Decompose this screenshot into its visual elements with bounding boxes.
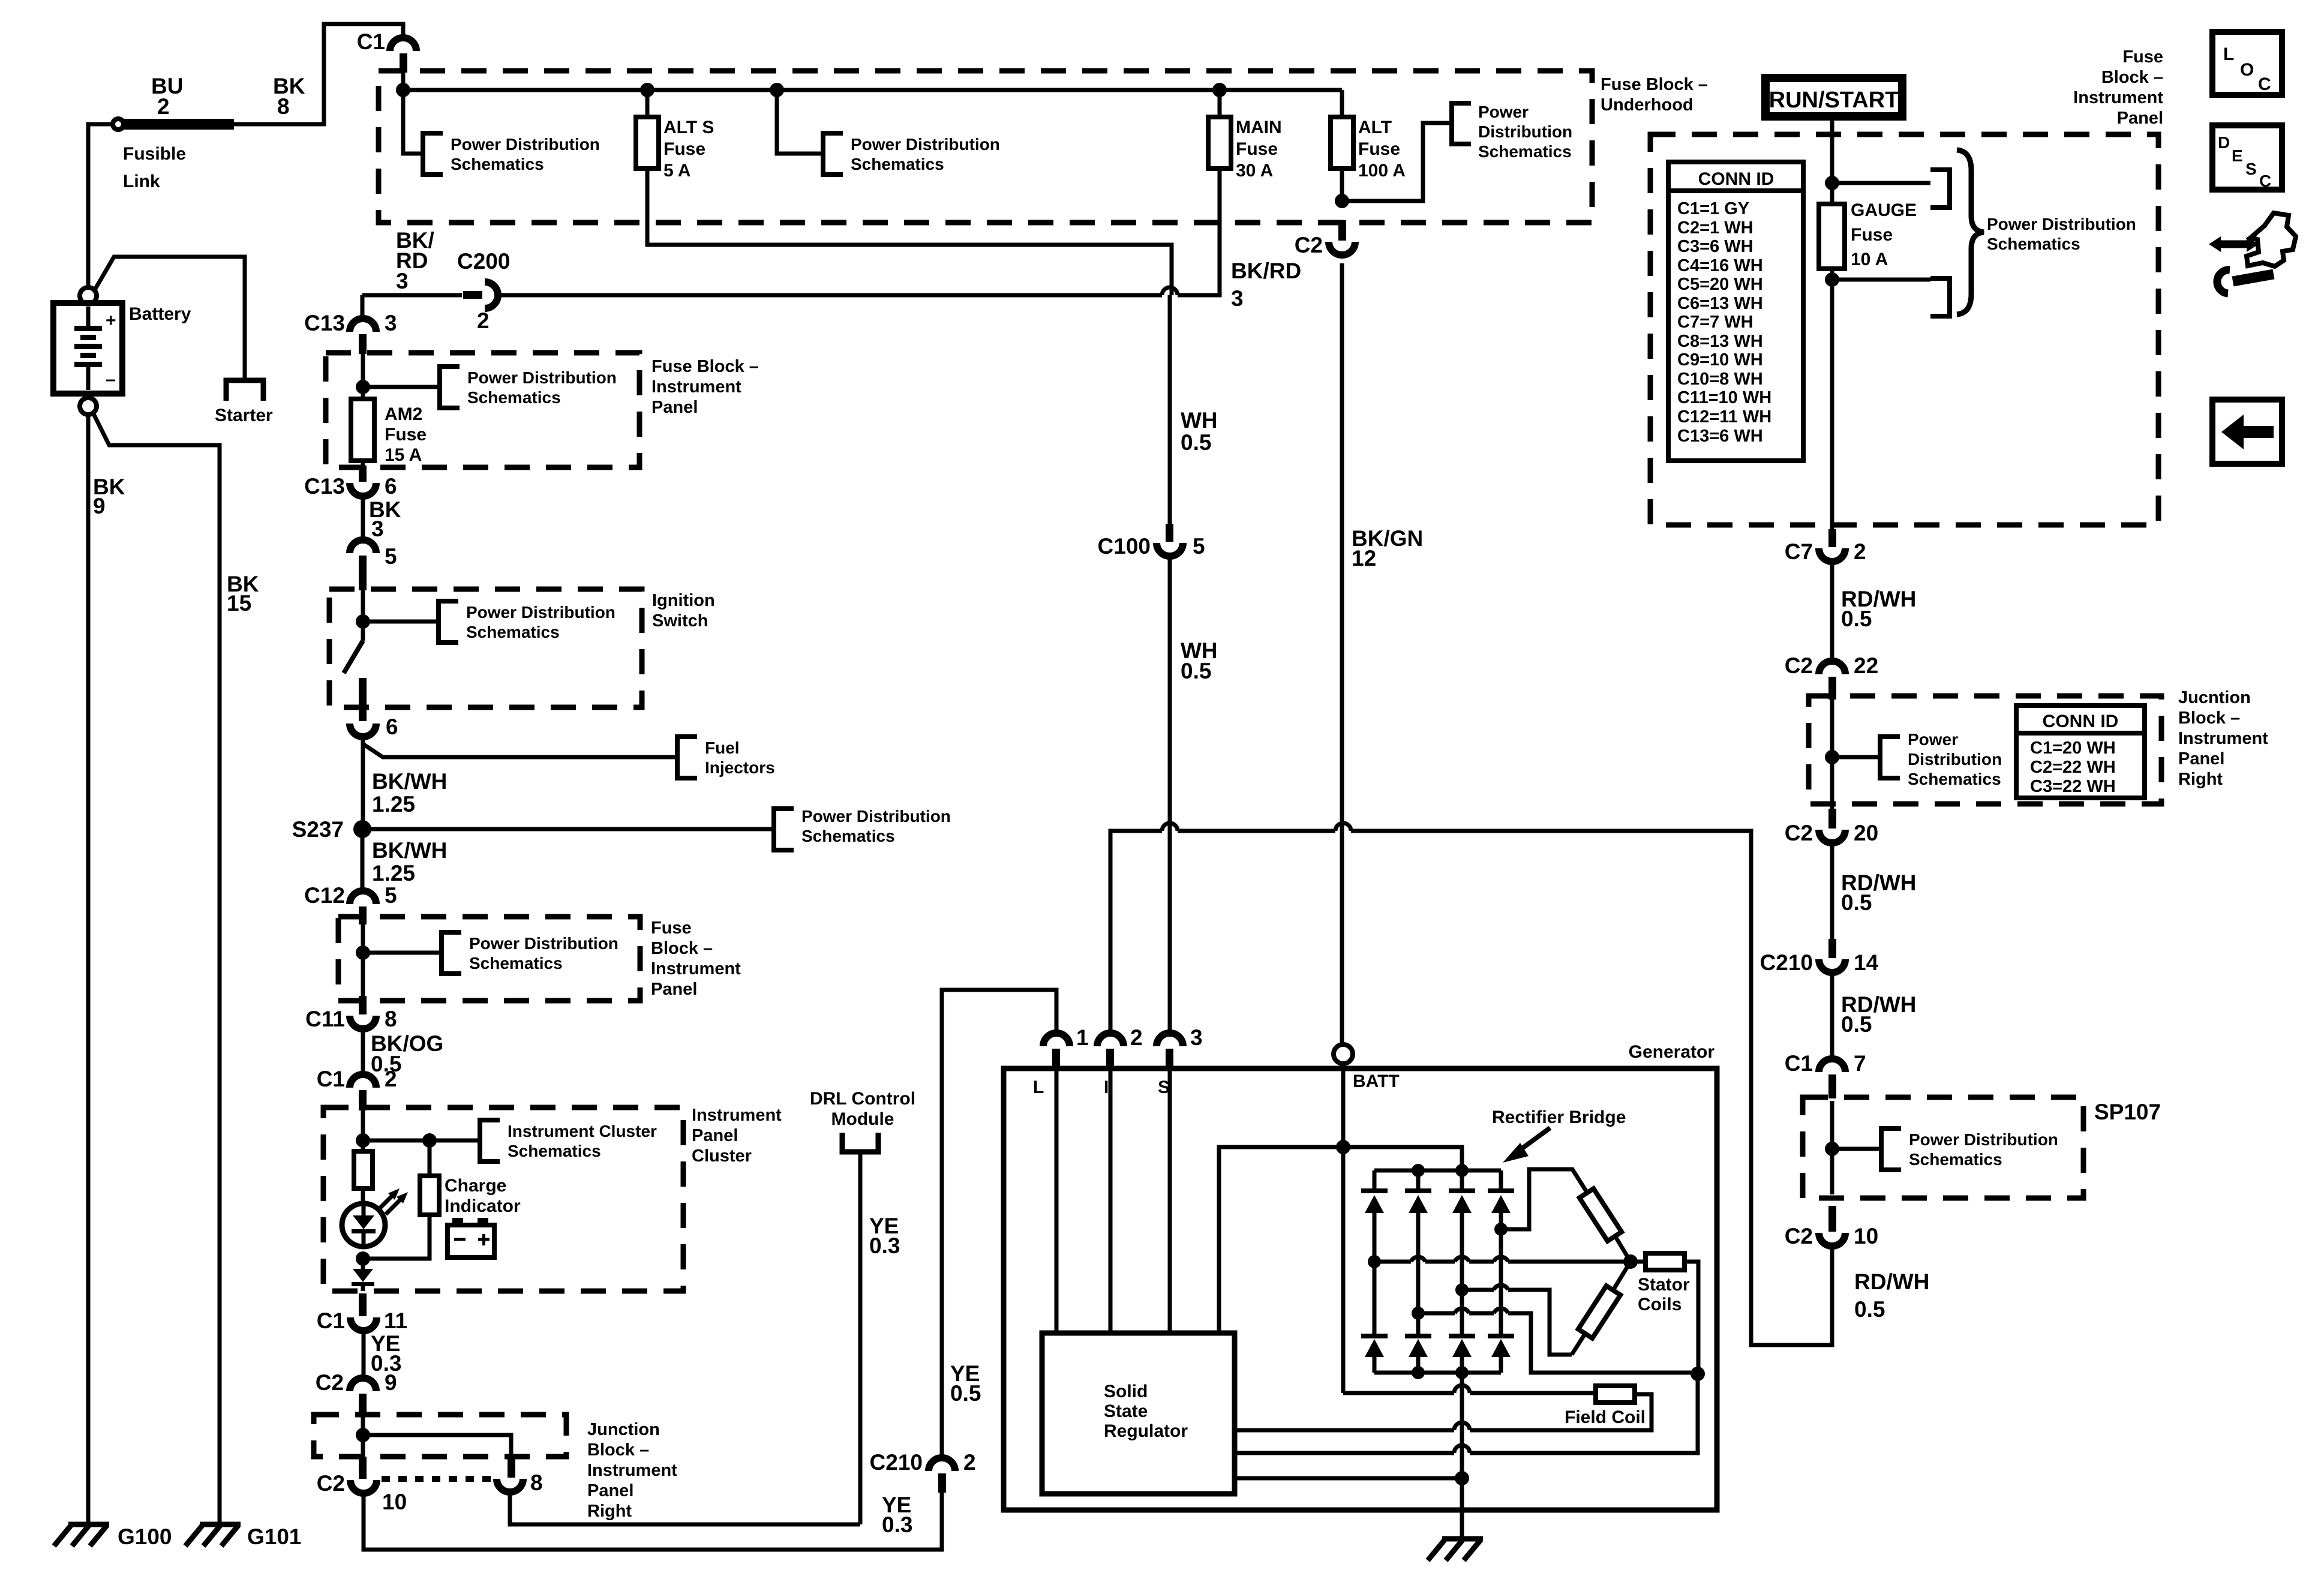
wire inside junction block left [361,1416,365,1457]
svg-text:12: 12 [1352,546,1376,571]
diode upper 4 [1488,1170,1514,1334]
node top rail col2 [1412,1164,1425,1177]
connector C200 pin 2 [457,249,510,333]
hops phase1 [1411,1257,1508,1262]
wire field coil top line1 [1343,1391,1596,1395]
svg-text:Right: Right [2178,770,2223,789]
stator coil top resistor [1580,1188,1622,1241]
label junction block IP right [2178,688,2268,789]
hop line3 over col3 [1454,1445,1470,1453]
svg-text:S: S [1158,1077,1170,1097]
node stator common [1691,1367,1705,1381]
fuse MAIN 30A [1208,90,1282,181]
svg-text:Distribution: Distribution [1908,750,2002,769]
node stator center [1623,1254,1638,1269]
bracket power distribution ref S237 [774,807,951,850]
fuse block IP AM2 dashed box [326,353,639,467]
svg-text:Junction: Junction [587,1420,660,1439]
svg-text:Schematics: Schematics [451,155,544,173]
svg-text:C1: C1 [317,1067,345,1091]
node top rail col3 [1455,1164,1469,1177]
svg-text:5 A: 5 A [663,161,691,181]
diode lower 1 [1361,1262,1388,1373]
node ignition-ref [356,614,370,629]
wire to instrument cluster ref [363,1139,479,1143]
phase rail 3 [1418,1313,1691,1373]
svg-text:I: I [1104,1077,1109,1097]
svg-text:Instrument: Instrument [692,1106,782,1125]
DRL control module [810,1089,915,1152]
switch output stub [359,678,367,721]
connector C210 pin 14 [1760,939,1879,975]
svg-text:0.5: 0.5 [1841,607,1872,631]
svg-text:Distribution: Distribution [1478,122,1572,141]
node bottom rail col2 [1412,1366,1425,1379]
label ignition switch [652,591,715,631]
svg-text:ALT: ALT [1358,118,1392,137]
svg-text:Power Distribution: Power Distribution [1987,215,2136,233]
svg-text:C2: C2 [1785,821,1813,845]
svg-text:Power Distribution: Power Distribution [466,603,615,622]
svg-text:Schematics: Schematics [801,827,895,845]
connector C2 pin 10 left [317,1457,407,1514]
svg-text:RUN/START: RUN/START [1769,88,1899,113]
svg-text:10: 10 [382,1490,407,1514]
svg-text:8: 8 [385,1007,397,1031]
svg-text:C12=11 WH: C12=11 WH [1677,407,1771,427]
svg-text:C200: C200 [457,249,510,274]
wire to schematic ref 2 [777,90,822,154]
wire RD/WH 0.5 c7 [1832,563,1916,661]
svg-text:RD/WH: RD/WH [1854,1269,1929,1294]
connector C1 (top) [357,29,416,73]
svg-text:C1: C1 [317,1308,345,1333]
hops phase3 [1455,1308,1508,1313]
diode upper 3 [1449,1170,1475,1290]
svg-text:Panel: Panel [2117,109,2163,128]
svg-text:Instrument: Instrument [651,959,741,978]
junction block IP right dashed box [1809,696,2161,804]
svg-text:C7: C7 [1785,539,1813,564]
svg-text:8: 8 [530,1470,543,1495]
hop line1 over col3 [1454,1385,1470,1393]
svg-text:G100: G100 [118,1524,172,1549]
svg-text:WH: WH [1181,408,1218,433]
label BK/RD 3 right [1231,259,1301,311]
wire DRL module down YE 0.3 [860,1152,900,1524]
svg-text:6: 6 [385,474,397,499]
connector pin 5 ignition [350,540,397,590]
svg-text:Link: Link [123,172,160,191]
svg-text:22: 22 [1854,653,1878,678]
svg-text:C10=8 WH: C10=8 WH [1677,370,1763,389]
svg-text:9: 9 [93,494,106,518]
svg-text:C2: C2 [1785,653,1813,678]
bracket power distribution ref 1 [423,133,600,175]
svg-text:Panel: Panel [692,1126,738,1145]
svg-text:Schematics: Schematics [1909,1150,2002,1169]
svg-text:Power Distribution: Power Distribution [1909,1130,2058,1149]
svg-text:2: 2 [157,94,170,119]
stator coil right resistor [1646,1253,1685,1270]
svg-text:GAUGE: GAUGE [1851,200,1917,220]
ground G101 [185,1524,302,1549]
LED charge lamp [342,1203,385,1247]
wire to schematic ref 1 [403,90,422,154]
svg-text:C13: C13 [304,311,345,335]
fuse block underhood dashed box [379,71,1592,223]
wire L inside generator [1033,1069,1056,1333]
node bus-MAIN [1212,83,1227,97]
node phase3 col2 [1412,1307,1425,1320]
svg-text:–: – [106,370,116,389]
fuse block IP 2 dashed box [338,917,640,1001]
svg-text:Panel: Panel [651,398,698,417]
ignition switch dashed box [329,589,642,707]
svg-text:Fusible: Fusible [123,144,186,164]
CONN ID table underhood [1668,162,1803,461]
svg-text:C6=13 WH: C6=13 WH [1677,294,1763,313]
svg-text:Block –: Block – [651,939,713,958]
svg-text:C9=10 WH: C9=10 WH [1677,350,1763,370]
svg-text:Instrument: Instrument [2178,729,2268,748]
connector C12 pin 5 [304,883,397,924]
svg-text:Instrument: Instrument [651,377,741,397]
svg-text:15 A: 15 A [385,445,422,465]
diode upper 1 [1361,1170,1388,1262]
svg-text:+: + [106,311,116,331]
svg-text:Ignition: Ignition [652,591,715,610]
svg-text:D: D [2218,133,2230,152]
wire to schematic ref 3 [1342,123,1451,201]
connector C1 pin 2 [317,1067,397,1110]
connector pin 2 I [1097,1025,1143,1069]
hop phase2 col4 [1494,1285,1508,1290]
wire inside fuse block IP 2 [361,924,365,997]
svg-text:Battery: Battery [129,304,191,324]
wire inside SP107 [1830,1101,1834,1194]
stator branch lower [1572,1262,1631,1355]
svg-text:G101: G101 [247,1524,302,1549]
svg-text:E: E [2232,146,2243,165]
svg-text:7: 7 [1854,1051,1866,1076]
diode lower 4 [1488,1334,1514,1373]
svg-text:Schematics: Schematics [1908,770,2001,788]
node SP107 [1825,1142,1839,1156]
svg-text:Instrument: Instrument [587,1461,677,1480]
svg-text:Stator: Stator [1638,1275,1690,1295]
svg-text:CONN ID: CONN ID [2043,712,2119,731]
svg-text:Block –: Block – [2101,68,2163,87]
solid state regulator [1042,1333,1235,1494]
bracket instrument cluster schematics [480,1120,657,1161]
wire battery+ to fusible link [88,124,113,288]
node col4 stator tap [1494,1223,1508,1236]
svg-text:Schematics: Schematics [1478,142,1572,161]
svg-text:C5=20 WH: C5=20 WH [1677,275,1763,294]
RUN/START box [1765,78,1902,116]
connector C100 pin 5 [1098,524,1205,559]
hop BK/RD over WH [1162,287,1178,295]
svg-text:ALT S: ALT S [663,118,714,137]
icon LOC box [2212,32,2282,95]
svg-text:2: 2 [1854,539,1866,564]
wire BK 9 battery- to G100 [88,415,125,1524]
svg-text:C2: C2 [316,1370,344,1395]
bracket power distribution ref 2 [823,133,1000,175]
splice S237 [292,817,371,842]
phase rail 2 [1462,1290,1572,1355]
svg-text:Fuse: Fuse [1851,225,1893,245]
svg-text:Schematics: Schematics [469,954,563,972]
svg-text:3: 3 [1190,1025,1203,1050]
svg-text:14: 14 [1854,950,1879,975]
bracket power distribution junction right [1880,730,2002,788]
svg-text:Fuse Block –: Fuse Block – [1601,75,1708,94]
svg-text:0.5: 0.5 [1854,1297,1885,1322]
wire BK/WH 1.25 lower [362,837,447,891]
wire resistor to LED [361,1188,365,1204]
svg-text:C1: C1 [357,29,385,54]
svg-text:C: C [2259,172,2271,190]
connector C2 pin 20 [1785,809,1878,845]
svg-text:Fuse: Fuse [1236,139,1278,159]
battery icon charge indicator [448,1218,494,1257]
node gauge top [1825,176,1839,190]
svg-text:C4=16 WH: C4=16 WH [1677,256,1763,275]
wire ALT-S fuse output to WH line [647,169,1172,295]
bracket gauge bottom ref [1930,278,1950,316]
svg-text:Instrument Cluster: Instrument Cluster [508,1122,657,1140]
wire BATT to rectifier top [1343,1147,1462,1170]
svg-text:Right: Right [587,1502,632,1521]
connector C11 pin 8 [305,996,397,1031]
wire BATT rail down [1341,1147,1346,1393]
connector C2 below ALT fuse [1295,220,1355,257]
node bus-ALTS [640,83,654,97]
svg-text:Underhood: Underhood [1601,95,1694,115]
svg-text:C210: C210 [870,1450,923,1475]
wire fusible link to C1 [234,24,403,124]
wire gauge bottom ref [1832,278,1930,282]
fuse AM2 15A [351,399,427,467]
svg-text:Panel: Panel [587,1481,633,1500]
wire BK/GN 12 [1342,263,1423,1044]
wire S inside generator [1158,1069,1170,1333]
label YE 0.3 bottom [882,1493,912,1537]
connector C13 pin 6 [304,466,397,499]
wire BATT into generator [1341,1064,1346,1147]
svg-text:C11: C11 [305,1007,345,1031]
fuse GAUGE 10A [1819,200,1917,269]
svg-text:2: 2 [477,308,490,333]
connector C7 pin 2 [1785,529,1866,564]
stator branch top [1501,1169,1631,1262]
svg-text:Schematics: Schematics [466,623,560,641]
svg-text:C13: C13 [304,474,345,499]
wire into cluster [361,1110,365,1151]
node junction block left [356,1428,370,1442]
icon arrow wrench [2209,213,2296,293]
svg-text:C2=22 WH: C2=22 WH [2030,758,2116,777]
node junction block right [1825,750,1839,764]
svg-text:C2: C2 [1295,233,1323,257]
switch blade [344,641,363,673]
node phase2 col3 [1455,1283,1469,1296]
connector C1 pin 7 [1785,1051,1866,1098]
svg-text:1.25: 1.25 [372,792,415,816]
wire WH 0.5 lower to S [1170,557,1218,1033]
resistor cluster lamp [354,1151,373,1188]
svg-text:C2=1 WH: C2=1 WH [1677,218,1753,238]
svg-text:C1: C1 [1785,1051,1813,1076]
svg-text:Power Distribution: Power Distribution [451,135,600,154]
svg-text:BK/WH: BK/WH [372,769,447,794]
svg-text:C100: C100 [1098,534,1151,559]
svg-text:8: 8 [277,94,290,119]
node cluster-ref [356,1133,370,1148]
svg-text:Solid: Solid [1104,1382,1148,1401]
fusible link [113,74,234,191]
svg-text:Panel: Panel [2178,749,2224,769]
wire stator sense line3 [1235,1374,1698,1453]
bracket power distribution ref FBIP2 [442,932,618,974]
node phase1 col1 [1368,1255,1381,1268]
wire to schematic ref FBIP2 [363,951,441,955]
svg-text:C2: C2 [317,1471,345,1496]
svg-text:CONN ID: CONN ID [1698,169,1774,189]
svg-text:Block –: Block – [587,1440,649,1460]
svg-text:BK/RD: BK/RD [1231,259,1301,283]
svg-text:Block –: Block – [2178,709,2240,728]
svg-text:Fuse: Fuse [663,139,705,159]
wire charge indicator branch [363,1140,430,1259]
svg-text:2: 2 [963,1450,976,1475]
wire RUN/START down [1830,116,1834,204]
svg-text:1: 1 [1076,1025,1089,1050]
connector pin 6 below ignition [350,715,398,739]
bus wire inside underhood box [403,72,1342,90]
svg-text:30 A: 30 A [1236,161,1273,181]
node AM2-ref [356,380,370,394]
svg-text:Schematics: Schematics [508,1142,601,1160]
wire RD/WH 0.5 c2-20 [1832,844,1916,957]
wire to schematic ref AM2 [363,385,439,389]
wire inside ignition switch [361,590,365,641]
connector pin 8 [497,1458,543,1495]
wire BATT to regulator rail [1219,1147,1343,1333]
svg-text:DRL Control: DRL Control [810,1089,915,1109]
svg-text:0.3: 0.3 [882,1512,912,1537]
svg-text:Injectors: Injectors [705,758,775,777]
svg-text:Schematics: Schematics [851,155,944,173]
svg-text:Regulator: Regulator [1104,1421,1188,1441]
junction block IP left dashed box [314,1415,566,1457]
svg-text:C12: C12 [304,883,345,908]
bracket power distribution ref AM2 [440,367,617,408]
svg-text:10 A: 10 A [1851,250,1888,269]
label fuse block IP right [2073,47,2163,128]
svg-text:10: 10 [1854,1224,1878,1248]
CONN ID table junction block [2016,706,2145,798]
svg-text:Generator: Generator [1629,1042,1715,1062]
svg-text:C3=6 WH: C3=6 WH [1677,237,1753,256]
wire to fuel injectors [363,744,675,757]
svg-text:S: S [2245,160,2257,178]
svg-text:Fuel: Fuel [705,739,740,757]
node line4 col3 [1455,1471,1469,1485]
wire gauge bottom [1830,269,1834,532]
svg-text:6: 6 [386,715,398,739]
svg-text:Power Distribution: Power Distribution [469,934,618,953]
label fuse block underhood [1601,75,1708,115]
wire BK/WH 1.25 upper [363,738,447,821]
svg-text:5: 5 [385,544,397,569]
svg-text:0.5: 0.5 [1181,430,1211,455]
instrument panel cluster dashed box [323,1107,683,1291]
hop line2 over col3 [1454,1422,1470,1430]
node LED bottom [356,1251,370,1266]
wire I inside generator [1104,1069,1110,1333]
dotted wire C2-10 to pin 8 [382,1476,492,1482]
label fuse block IP AM2 [651,357,759,417]
svg-text:L: L [1033,1077,1044,1097]
svg-text:Fuse Block –: Fuse Block – [651,357,759,376]
connector C2 pin 10 right [1785,1206,1878,1248]
svg-text:Power Distribution: Power Distribution [467,368,617,387]
wire BK 15 battery- to G101 [93,413,259,1524]
label rectifier bridge [1492,1107,1626,1163]
fuse ALT 100A [1331,90,1406,181]
svg-text:2: 2 [1130,1025,1143,1050]
svg-text:5: 5 [385,883,397,908]
svg-text:Fuse: Fuse [651,918,692,938]
svg-text:1.25: 1.25 [372,861,415,885]
svg-text:MAIN: MAIN [1236,118,1282,137]
svg-text:Panel: Panel [651,980,697,999]
rectifier top rail [1374,1169,1501,1173]
svg-text:O: O [2240,60,2254,80]
resistor charge indicator [420,1176,521,1216]
svg-text:Power Distribution: Power Distribution [851,135,1000,154]
svg-text:S237: S237 [292,817,344,842]
wire regulator ground line4 [1235,1476,1462,1481]
rectifier bottom rail [1374,1371,1501,1375]
wire pin 8 to DRL node [510,1493,860,1524]
node bus-ref2 [770,83,784,97]
svg-text:C13=6 WH: C13=6 WH [1677,427,1763,446]
wire to ref junction block right [1832,755,1879,760]
label instrument panel cluster [692,1106,782,1166]
svg-text:15: 15 [227,591,251,616]
hop bus over BK/GN [1335,823,1351,831]
fuse ALT S 5A [636,90,714,181]
wire col3 to ground [1460,1373,1464,1539]
svg-text:5: 5 [1193,534,1205,559]
BATT terminal [1334,1044,1400,1091]
wire I-line bus [1110,831,1832,1345]
icon DESC box [2212,125,2282,190]
svg-text:C210: C210 [1760,950,1813,975]
node cluster-charge branch [422,1133,437,1148]
bracket power distribution ref 3 [1452,103,1572,161]
svg-text:AM2: AM2 [385,404,422,424]
svg-text:BK/WH: BK/WH [372,838,447,863]
svg-text:3: 3 [385,311,397,335]
wire WH 0.5 upper [1170,295,1218,527]
wire YE 0.5 C210 riser [942,990,1056,1458]
diode lower 2 [1405,1313,1431,1373]
